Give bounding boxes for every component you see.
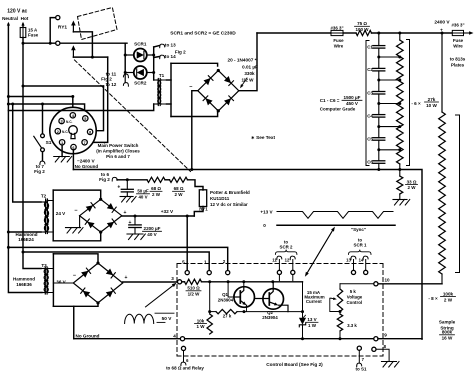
label 1/2 W <box>242 78 255 83</box>
zener D9 13V <box>299 315 306 327</box>
scr SCR2 <box>125 66 154 79</box>
bridge rectifier 20-1N4007 <box>198 69 239 113</box>
label C5 <box>367 137 373 142</box>
wire row A <box>202 280 303 283</box>
wire terminal5 drop <box>186 216 188 270</box>
svg-text:100 W: 100 W <box>355 27 369 32</box>
label C1 <box>367 44 373 49</box>
transformer T1 core <box>158 79 160 106</box>
label 2400 V <box>434 20 450 33</box>
terminal 14 <box>359 256 368 274</box>
wire 10k drop <box>208 282 211 314</box>
bridge rectifier D5-D8 36V <box>73 262 122 305</box>
wire contact2 return <box>73 56 107 59</box>
label Q2 2N3904 <box>262 310 278 320</box>
ground socket pin1 <box>54 157 72 163</box>
svg-text:Current: Current <box>306 299 322 304</box>
svg-text:SCR2: SCR2 <box>134 81 147 86</box>
svg-text:1/2 W: 1/2 W <box>188 292 201 297</box>
label 510 ohm <box>186 286 201 297</box>
bracket cap bank left <box>366 41 369 166</box>
socket pin 6 <box>71 144 76 149</box>
terminal to 12 <box>123 73 128 87</box>
wire hot row <box>23 42 127 44</box>
wire +32V row <box>122 215 195 218</box>
label SCR1 <box>134 41 147 46</box>
resistor 10k <box>207 314 212 334</box>
waveform +13V <box>277 212 393 219</box>
svg-text:166E24: 166E24 <box>18 237 34 242</box>
resistor string 6x27k <box>397 33 404 170</box>
svg-text:20 - 1N4007 *: 20 - 1N4007 * <box>228 58 257 63</box>
label 2200uF 40V <box>143 226 162 237</box>
svg-text:100k: 100k <box>443 291 454 296</box>
svg-text:RY1: RY1 <box>58 25 67 31</box>
label 6x27k <box>411 97 438 108</box>
svg-text:+: + <box>440 27 443 32</box>
label 36 V <box>56 280 66 285</box>
svg-text:−: − <box>189 85 192 91</box>
label 330k <box>244 71 255 76</box>
bracket cap bank right <box>407 40 410 166</box>
bridge rectifier D1-D4 24V <box>80 198 122 234</box>
socket pin 4 <box>70 113 75 118</box>
label Fuse Wire right <box>453 38 464 49</box>
wire neutral vertical <box>7 22 42 293</box>
wire bridge pos up <box>239 33 257 91</box>
scr SCR1 <box>125 49 154 62</box>
label minus T2 bridge <box>74 208 77 214</box>
svg-text:C4: C4 <box>367 113 373 118</box>
wire T3 neg down <box>73 306 75 338</box>
resistor 27k <box>216 309 237 313</box>
label Hammond 166E24 <box>15 232 37 242</box>
wire T3 secondary loop <box>53 254 98 306</box>
wire hot branch <box>23 85 104 87</box>
wires cap bank junctions <box>377 56 401 152</box>
svg-text:1 W: 1 W <box>196 324 205 329</box>
svg-text:Fig 2: Fig 2 <box>175 49 186 54</box>
svg-text:Fuse: Fuse <box>333 38 344 43</box>
terminal to 6 fig2 <box>99 172 127 182</box>
svg-text:∗ See Text: ∗ See Text <box>251 135 276 140</box>
terminal 6 <box>181 346 189 365</box>
label minus hv bridge <box>189 85 192 91</box>
svg-text:800k: 800k <box>442 330 453 335</box>
wire top rail mid <box>344 32 357 34</box>
svg-text:−: − <box>73 273 76 279</box>
wire emitter row <box>210 307 304 313</box>
terminal to 14 <box>154 55 165 59</box>
terminal to 11 <box>123 74 128 78</box>
svg-text:Fig 2: Fig 2 <box>34 169 45 174</box>
wire S1 feed <box>42 104 44 134</box>
label to 7 Fig 2 <box>34 164 45 174</box>
terminal 7 <box>357 346 365 367</box>
svg-text:KU11D11: KU11D11 <box>210 196 230 201</box>
label Neutral <box>2 16 18 21</box>
svg-text:68 Ω: 68 Ω <box>151 186 161 191</box>
label 15 A Fuse <box>28 28 39 38</box>
svg-text:−: − <box>74 208 77 214</box>
wire Q1 base feed <box>228 282 234 297</box>
svg-text:10 W: 10 W <box>426 103 437 108</box>
socket pin 1 <box>59 140 64 145</box>
svg-text:0.01 µF: 0.01 µF <box>242 65 258 70</box>
potentiometer 5k <box>330 289 343 313</box>
svg-text:10: 10 <box>384 278 390 283</box>
wire 3.3k to bus <box>339 331 342 340</box>
label to 11 Fig 2 to 12 <box>101 71 117 86</box>
svg-text:2200 µF: 2200 µF <box>144 226 161 231</box>
wire between 68s <box>165 179 170 181</box>
wire SCR right rail <box>152 47 155 80</box>
svg-text:(in Amplifier) Closes: (in Amplifier) Closes <box>96 149 140 154</box>
svg-text:Hammond: Hammond <box>13 277 35 282</box>
wire pot top <box>339 284 341 289</box>
svg-text:+: + <box>125 275 128 281</box>
svg-text:2N3904: 2N3904 <box>218 297 234 302</box>
wire to socket pin7 <box>87 57 107 142</box>
svg-text:Neutral: Neutral <box>2 16 18 21</box>
wire Q1 collector up <box>243 282 245 287</box>
wire T1 secondary loop <box>167 63 218 116</box>
label to SCR 2 <box>280 240 293 250</box>
svg-text:SCR 2: SCR 2 <box>280 244 293 249</box>
wire T2 bridge gnd <box>79 216 81 228</box>
svg-text:Sample: Sample <box>439 320 456 325</box>
svg-text:Control Board (See Fig 2): Control Board (See Fig 2) <box>266 362 323 367</box>
svg-text:#36 3": #36 3" <box>330 25 343 30</box>
wire hot vertical top <box>21 22 24 28</box>
socket keyway <box>69 126 78 139</box>
svg-text:40 V: 40 V <box>147 232 157 237</box>
label N.C. pin2 <box>62 130 68 134</box>
svg-text:330k: 330k <box>244 71 255 76</box>
svg-text:1: 1 <box>204 260 207 265</box>
wire zero line <box>277 224 395 226</box>
terminal 9 <box>374 333 387 341</box>
svg-text:Pin 6 and 7: Pin 6 and 7 <box>106 154 130 159</box>
wire sample string lead <box>441 33 443 112</box>
label 15mA max current <box>304 290 324 304</box>
svg-text:2N3904: 2N3904 <box>262 315 278 320</box>
svg-text:N.C.: N.C. <box>62 130 68 134</box>
terminal 3 <box>171 276 181 284</box>
wire T3 primary top <box>23 252 41 269</box>
switch S1 <box>34 134 45 152</box>
wire T2 primary top <box>11 103 41 203</box>
svg-text:1 W: 1 W <box>308 323 317 328</box>
svg-text:to 68 Ω and Relay: to 68 Ω and Relay <box>166 366 204 371</box>
svg-text:Plates: Plates <box>451 63 465 68</box>
terminal 5 <box>182 260 189 275</box>
label S1 <box>46 140 52 146</box>
label 120 V ac <box>7 9 27 15</box>
svg-text:T2: T2 <box>41 194 47 199</box>
svg-text:12 V dc or Similar: 12 V dc or Similar <box>210 202 248 207</box>
label 8x100k <box>428 291 455 302</box>
wire top rail right <box>372 32 452 35</box>
relay contact RY1-a <box>56 16 76 33</box>
svg-text:12: 12 <box>285 258 290 263</box>
svg-text:No Ground: No Ground <box>76 333 100 338</box>
svg-text:3.3 k: 3.3 k <box>347 323 357 328</box>
label 5k voltage control <box>346 289 362 305</box>
label T3 <box>41 263 47 268</box>
svg-text:2 W: 2 W <box>407 185 416 190</box>
terminal 13 <box>346 256 356 274</box>
label 10k 1W <box>195 318 207 329</box>
transformer T1 primary <box>154 80 161 104</box>
resistor sample string 8x100k <box>439 112 446 284</box>
wire neutral branch to pin4 <box>7 95 74 112</box>
ground terminal 8 <box>382 362 400 368</box>
ground 33 ohm <box>393 200 410 206</box>
svg-text:Wire: Wire <box>453 44 463 49</box>
resistor 510 ohm <box>185 279 202 284</box>
label C3 <box>367 90 373 95</box>
snubber arrow <box>240 78 247 88</box>
wire 11 to row <box>278 275 280 281</box>
svg-text:C3: C3 <box>367 90 373 95</box>
wire T2 primary bottom <box>7 231 41 234</box>
resistor 68 ohm b <box>170 177 188 182</box>
label RY1 <box>58 25 67 31</box>
wire T1 primary bottom return <box>8 104 153 111</box>
svg-text:50 µF: 50 µF <box>137 189 149 194</box>
arrow ripple to terminal3 <box>146 283 177 307</box>
capacitor chain C1-C6 <box>373 33 385 170</box>
terminal 1 <box>204 260 211 275</box>
svg-text:2 W: 2 W <box>174 192 183 197</box>
svg-text:68 Ω: 68 Ω <box>174 186 184 191</box>
wire main bus <box>73 168 422 339</box>
label 50uF 40V <box>137 189 150 200</box>
wire neutral branch to S1 and pin5 <box>7 103 85 116</box>
label Hot <box>21 16 29 21</box>
svg-text:36 V: 36 V <box>56 280 66 285</box>
wire 68 ohm row <box>126 178 147 181</box>
label 20 - 1N4007 * <box>228 58 257 63</box>
svg-text:C5: C5 <box>367 137 373 142</box>
svg-text:N.C.: N.C. <box>66 120 72 124</box>
label 13V 1W <box>306 317 318 328</box>
label Hammond 166E36 <box>13 277 35 288</box>
relay coil RY1 <box>199 190 206 207</box>
label 0 <box>263 223 266 228</box>
wire coil to 32V <box>194 207 203 217</box>
label 75 ohm 100W <box>355 21 370 32</box>
svg-text:40 V: 40 V <box>138 194 147 199</box>
label C4 <box>367 113 373 118</box>
socket pin 3 <box>59 118 64 123</box>
svg-text:Q1: Q1 <box>222 292 228 297</box>
label to 68 ohm and Relay <box>166 366 204 371</box>
svg-text:"Sync": "Sync" <box>351 227 366 232</box>
svg-text:4: 4 <box>173 334 176 339</box>
svg-text:Fuse: Fuse <box>28 33 39 38</box>
transformer T3 secondary <box>44 269 53 293</box>
wire bus1 <box>7 246 228 270</box>
svg-text:SCR 1: SCR 1 <box>354 242 367 247</box>
transistor Q2 <box>255 282 289 312</box>
svg-text:7: 7 <box>84 140 86 145</box>
socket pin 2 <box>55 129 60 134</box>
wire pin1 ground lead <box>61 145 63 156</box>
svg-text:−2400 V: −2400 V <box>77 158 95 163</box>
terminal 8 <box>372 344 389 362</box>
capacitor 2200uF <box>129 216 142 234</box>
svg-text:T3: T3 <box>41 263 47 268</box>
label -2400 V <box>77 158 95 163</box>
svg-text:C1 - C6 =: C1 - C6 = <box>320 98 340 103</box>
svg-text:+: + <box>124 210 127 216</box>
dashed control board box <box>177 264 383 357</box>
terminal 4 <box>173 334 184 341</box>
label Main Power Switch <box>96 143 140 159</box>
label C1-C6 value <box>320 95 362 111</box>
svg-text:Potter & Brumfield: Potter & Brumfield <box>210 190 250 195</box>
wire to relay contact 1 <box>49 18 56 45</box>
transformer T3 core <box>45 267 47 294</box>
svg-text:166E36: 166E36 <box>16 282 32 287</box>
terminal to 13 <box>154 44 165 48</box>
label 3.3k <box>347 323 357 328</box>
svg-text:C6: C6 <box>367 160 373 165</box>
svg-text:24 V: 24 V <box>56 211 66 216</box>
label Control Board <box>266 362 323 367</box>
svg-text:SCR1 and SCR2 = GE C230D: SCR1 and SCR2 = GE C230D <box>170 30 236 36</box>
label to 13 Fig 2 to 14 <box>165 43 186 59</box>
wire T3 bridge left <box>53 282 73 284</box>
svg-text:+: + <box>117 185 120 191</box>
wire zener drop <box>302 282 304 317</box>
label Fuse Wire left <box>333 38 344 49</box>
label +32 V <box>161 209 174 214</box>
svg-text:to 14: to 14 <box>165 54 176 59</box>
socket pin 7 <box>82 140 87 145</box>
wire hot vertical long <box>22 43 25 253</box>
svg-text:Wire: Wire <box>334 44 344 49</box>
socket pin 5 <box>83 116 88 121</box>
svg-text:S1: S1 <box>46 140 52 146</box>
label T1 <box>159 73 165 78</box>
label SCR1 and SCR2 = GE C230D <box>170 30 236 36</box>
terminal 10 <box>374 278 390 286</box>
bracket sample string <box>456 115 460 273</box>
svg-text:Main Power Switch: Main Power Switch <box>98 143 139 148</box>
label 27k <box>223 314 232 319</box>
dashed linkage to board <box>75 60 191 172</box>
wire bus right join <box>378 338 422 340</box>
svg-text:1/2 W: 1/2 W <box>242 78 255 83</box>
transformer T1 secondary <box>158 80 167 104</box>
wire row A left <box>182 281 185 283</box>
svg-text:T1: T1 <box>159 73 165 78</box>
terminal 11 <box>272 256 282 274</box>
resistor 75 ohm <box>356 30 372 35</box>
terminal 12 <box>285 256 296 274</box>
label 24 V <box>56 211 66 216</box>
svg-text:75 Ω: 75 Ω <box>357 21 367 26</box>
label Sync <box>351 227 366 232</box>
wire contact1 return <box>73 32 92 57</box>
ground 2200uF <box>127 234 145 240</box>
label +13V <box>260 210 273 215</box>
wire bus2 <box>23 252 209 270</box>
ground T2 bridge <box>66 228 84 234</box>
svg-text:9: 9 <box>384 333 387 338</box>
label sample string <box>439 320 456 341</box>
relay contact RY1-b <box>56 41 76 57</box>
svg-text:to 13: to 13 <box>165 43 176 48</box>
label N.C. pin3 <box>66 120 72 124</box>
label 68 ohm a <box>150 186 162 197</box>
wire SCR left rail <box>124 43 127 74</box>
svg-text:No Ground: No Ground <box>75 164 99 169</box>
svg-text:10k: 10k <box>197 318 205 323</box>
wire to relay coil <box>188 180 204 190</box>
svg-text:2: 2 <box>223 259 226 264</box>
svg-text:- 8 ×: - 8 × <box>428 296 438 301</box>
resistor 3.3k <box>337 314 342 331</box>
label No Ground upper <box>75 164 99 169</box>
wire to plates arrow <box>464 31 474 35</box>
svg-text:Fig 2: Fig 2 <box>99 177 110 182</box>
svg-text:16 W: 16 W <box>442 336 453 341</box>
svg-text:to S1: to S1 <box>355 367 366 372</box>
svg-text:+32 V: +32 V <box>161 209 174 214</box>
fuse F1 15 A <box>20 28 26 38</box>
svg-text:33 Ω: 33 Ω <box>407 179 417 184</box>
wire 12 to row <box>292 275 294 281</box>
socket pin 8 <box>87 129 92 134</box>
terminal 2 <box>223 259 230 275</box>
svg-text:13 V: 13 V <box>307 317 316 322</box>
capacitor 50uF <box>117 180 133 197</box>
label No Ground lower <box>76 333 100 338</box>
resistor 33 ohm <box>397 170 403 200</box>
svg-text:to 12: to 12 <box>106 82 117 87</box>
label RY1 coil <box>199 207 208 212</box>
svg-text:Computer Grade: Computer Grade <box>320 106 356 111</box>
wire bridge neg down <box>190 91 198 171</box>
svg-text:27 k: 27 k <box>223 314 232 319</box>
label SCR2 <box>134 81 147 86</box>
wire hot below fuse <box>22 38 25 45</box>
fuse wire F3 #36 <box>452 30 464 35</box>
transformer T2 core <box>46 199 48 234</box>
wire bottom bus <box>74 338 374 340</box>
octal socket ring <box>50 107 96 153</box>
label 68 ohm b <box>173 186 185 197</box>
transformer T3 primary <box>41 269 48 293</box>
svg-text:C1: C1 <box>367 44 373 49</box>
svg-text:+13 V: +13 V <box>260 210 273 215</box>
brace to SCR2 <box>275 250 297 255</box>
resistor 68 ohm a <box>147 177 165 182</box>
label #36 3in left <box>330 25 343 30</box>
label C2 <box>367 67 373 72</box>
label #36 3in right <box>451 23 464 28</box>
transformer T2 secondary <box>44 201 53 233</box>
svg-text:2400 V: 2400 V <box>434 20 450 26</box>
transistor Q1 <box>234 287 255 308</box>
wire terminal 10 left <box>340 283 374 285</box>
label Potter Brumfield <box>210 190 250 207</box>
label Q1 2N3904 <box>218 292 234 302</box>
